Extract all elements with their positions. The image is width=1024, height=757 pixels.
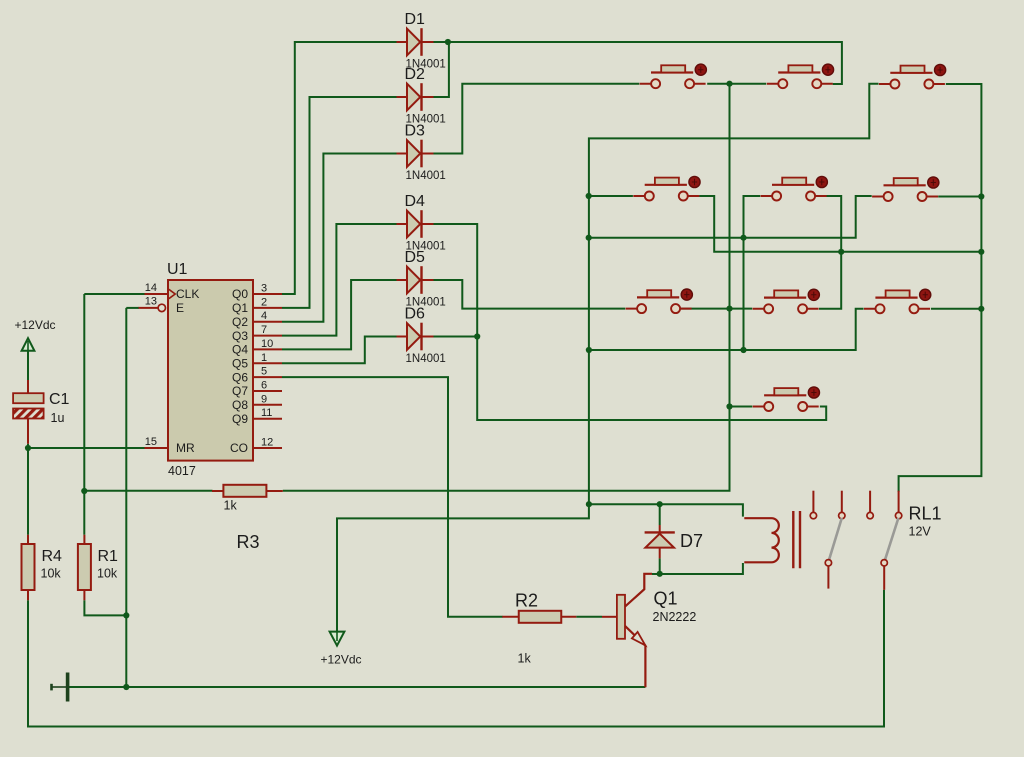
push button row3 col1: [626, 289, 693, 313]
svg-text:7: 7: [261, 324, 267, 336]
svg-text:CLK: CLK: [176, 287, 199, 301]
wire R1 bottom link: [84, 600, 126, 615]
svg-text:CO: CO: [230, 441, 248, 455]
resistor R4 leads: [27, 535, 29, 600]
relay bottom contact 2: [881, 560, 887, 590]
svg-text:12: 12: [261, 437, 273, 449]
wire row3 btn3 right to far-right column: [931, 308, 981, 310]
wire D2 cathode to D1 junction: [433, 42, 449, 97]
push button row2 col3: [872, 177, 939, 201]
wire D6 cathode to junction: [433, 336, 477, 338]
pin CO (pin 12) of U1: [230, 437, 282, 456]
diode D7 (flyback): [645, 525, 703, 558]
wire D1 cathode bus to button row1: [433, 42, 842, 84]
svg-text:1u: 1u: [51, 411, 65, 425]
wire +12V rail riser and top feed: [337, 84, 879, 644]
node y238 bus on +12V column: [586, 235, 592, 241]
svg-text:5: 5: [261, 366, 267, 378]
resistor R3 (1k): [223, 485, 266, 552]
diode D1 (1N4001): [397, 11, 446, 71]
svg-text:U1: U1: [167, 261, 188, 278]
transistor Q1 (2N2222): [602, 574, 696, 687]
svg-text:R2: R2: [515, 591, 538, 611]
wire ground row: [68, 686, 645, 688]
node R1 bottom on E column: [123, 612, 129, 618]
resistor R1 leads: [83, 535, 85, 600]
wire D7 bottom lead: [659, 558, 661, 573]
svg-text:Q1: Q1: [654, 589, 678, 609]
wire C1 to junction: [27, 444, 29, 448]
svg-text:MR: MR: [176, 441, 195, 455]
diode D4 (1N4001): [397, 193, 446, 253]
svg-text:Q7: Q7: [232, 384, 248, 398]
wire Q1 to D2 anode: [282, 97, 397, 308]
node row3 btn3 right on far-right column: [978, 306, 984, 312]
diode D6 (1N4001): [397, 306, 446, 366]
wire Q2 to D3 anode: [282, 154, 397, 322]
svg-text:2N2222: 2N2222: [653, 610, 697, 624]
diode D3 (1N4001): [397, 123, 446, 183]
svg-text:1k: 1k: [224, 499, 238, 513]
svg-text:Q2: Q2: [232, 315, 248, 329]
wire Q6 to R2: [282, 377, 503, 617]
svg-text:10k: 10k: [41, 567, 62, 581]
resistor R2 leads: [502, 616, 576, 618]
svg-text:1N4001: 1N4001: [406, 170, 446, 182]
resistor R2 (1k): [515, 591, 561, 666]
svg-text:Q4: Q4: [232, 343, 248, 357]
svg-text:6: 6: [261, 380, 267, 392]
power +12Vdc top-left arrow: [22, 338, 35, 351]
diode D5 (1N4001): [397, 249, 446, 309]
pin Q4 (pin 10) of U1: [232, 338, 282, 357]
node D7 anode branch: [657, 501, 663, 507]
node row2 btn1 left on +12V column: [586, 193, 592, 199]
resistor R1 (10k): [78, 544, 118, 590]
wire +12V top arrow stem: [27, 351, 29, 381]
svg-text:10k: 10k: [97, 567, 118, 581]
node row3 on R3 column: [726, 306, 732, 312]
wire E column: [125, 308, 127, 687]
push button row1 col3: [879, 64, 946, 88]
pin Q2 (pin 4) of U1: [232, 310, 282, 329]
svg-text:3: 3: [261, 283, 267, 295]
wire D7 +12V branch: [589, 504, 743, 516]
relay contact pin 3: [867, 491, 873, 519]
node E column on ground row: [123, 684, 129, 690]
capacitor C1 (1u): [13, 380, 69, 444]
wire row1 btn1-btn2 link: [707, 83, 766, 85]
pin Q6 (pin 5) of U1: [232, 366, 282, 385]
push button row2 col1: [633, 176, 700, 200]
resistor R3 leads: [212, 490, 283, 492]
node D7 branch on +12V column: [586, 501, 592, 507]
node y350 bus on +12V column: [586, 347, 592, 353]
pin E (pin 13) of U1: [139, 296, 185, 315]
wire row10 button left stub: [730, 406, 753, 408]
svg-text:R4: R4: [42, 548, 63, 565]
svg-text:1: 1: [261, 352, 267, 364]
svg-text:Q8: Q8: [232, 398, 248, 412]
relay bottom contact 1: [825, 560, 831, 589]
svg-text:9: 9: [261, 393, 267, 405]
wire CLK/R1 column: [83, 294, 85, 535]
pin Q9 (pin 11) of U1: [232, 407, 282, 426]
ground symbol: [52, 673, 68, 702]
wire Q3 to D4 anode: [282, 224, 397, 336]
diode D2 (1N4001): [397, 66, 446, 126]
node D7/Q1 collector/coil: [657, 571, 663, 577]
push button row3 col3: [864, 289, 931, 313]
relay switch arm 2: [885, 518, 899, 560]
svg-text:D4: D4: [405, 193, 426, 210]
node btn2 riser on y350 bus: [740, 347, 746, 353]
node C1/MR/R4: [25, 445, 31, 451]
wire Q0 to D1 anode: [282, 42, 397, 294]
wire row2 btn1 right to contact bus: [699, 196, 981, 252]
relay contact pin 4: [895, 491, 901, 519]
svg-text:Q1: Q1: [232, 301, 248, 315]
svg-text:12V: 12V: [909, 525, 932, 539]
pin Q5 (pin 1) of U1: [232, 352, 282, 371]
power +12Vdc down arrow (middle): [330, 632, 345, 646]
wire MR row: [28, 447, 145, 449]
svg-text:D7: D7: [680, 531, 703, 551]
node R3 left: [81, 488, 87, 494]
svg-text:D1: D1: [405, 11, 426, 28]
pin Q1 (pin 2) of U1: [232, 296, 282, 315]
svg-text:D5: D5: [405, 249, 426, 266]
pin CLK (pin 14) of U1: [145, 282, 200, 301]
svg-text:Q3: Q3: [232, 329, 248, 343]
resistor R4 (10k): [22, 544, 63, 590]
wire row2 btn2 left riser: [744, 196, 761, 350]
svg-text:R3: R3: [237, 532, 260, 552]
wire Q4 to D5 anode: [282, 280, 397, 349]
svg-text:1N4001: 1N4001: [406, 353, 446, 365]
node D1/D2 cathodes: [445, 39, 451, 45]
wire row2 btn1 left to +12V column: [589, 195, 633, 197]
node row1 on R3 column: [726, 81, 732, 87]
wire Q5 to D6 anode: [282, 337, 397, 364]
svg-text:14: 14: [145, 282, 157, 294]
wire R2 base link: [576, 616, 602, 618]
wire row1 btn3 right to far-right column: [899, 84, 982, 492]
pin Q8 (pin 9) of U1: [232, 393, 282, 412]
svg-text:15: 15: [145, 436, 157, 448]
svg-text:13: 13: [145, 296, 157, 308]
wire R3 left segment: [84, 490, 212, 492]
wire row3 btn1 right to column: [681, 308, 753, 310]
svg-text:2: 2: [261, 296, 267, 308]
wire row2-row3 btn2 right riser: [819, 196, 841, 309]
node row2 btn2 right on contact bus: [838, 249, 844, 255]
wire R3 output column: [283, 84, 730, 491]
wire D7 top lead: [659, 504, 661, 525]
push button row1 col2: [767, 64, 834, 88]
wire row2 left bus y238: [589, 196, 872, 238]
svg-text:+12Vdc: +12Vdc: [321, 653, 362, 667]
wire D4 cathode down: [433, 224, 826, 420]
wire row2 btn3 right to far-right column: [938, 196, 981, 198]
wire row3 left bus y350: [589, 309, 864, 350]
wire D3 cathode to row1 button1: [433, 84, 639, 154]
node D4/D6 cathodes: [474, 333, 480, 339]
pin Q7 (pin 6) of U1: [232, 380, 282, 399]
svg-text:Q6: Q6: [232, 370, 248, 384]
push button row2 col2: [761, 176, 828, 200]
relay contact pin 2: [839, 491, 845, 519]
svg-text:RL1: RL1: [909, 504, 942, 524]
svg-text:1k: 1k: [518, 652, 532, 666]
node contact bus on far-right column: [978, 249, 984, 255]
svg-text:4017: 4017: [168, 464, 196, 478]
svg-text:D6: D6: [405, 306, 426, 323]
wire D5 cathode to row3 button1: [433, 280, 625, 309]
relay contact pin 1: [810, 491, 816, 519]
svg-text:D3: D3: [405, 123, 426, 140]
push button row1 col1: [640, 64, 707, 88]
svg-text:10: 10: [261, 338, 273, 350]
pin Q0 (pin 3) of U1: [232, 283, 282, 302]
push button row4 single: [753, 387, 820, 411]
wire R4 top lead wire: [27, 448, 29, 535]
node row10 on R3 column: [726, 403, 732, 409]
push button row3 col2: [753, 289, 820, 313]
svg-text:Q5: Q5: [232, 357, 248, 371]
wire CLK row: [84, 293, 144, 295]
svg-text:E: E: [176, 301, 184, 315]
node y238 bus on btn2 riser: [740, 235, 746, 241]
svg-text:C1: C1: [49, 391, 70, 408]
wire E row: [126, 307, 139, 309]
svg-text:Q9: Q9: [232, 412, 248, 426]
pin Q3 (pin 7) of U1: [232, 324, 282, 343]
IC U1 4017 body: [158, 280, 253, 461]
pin MR (pin 15) of U1: [145, 436, 195, 455]
svg-text:4: 4: [261, 310, 267, 322]
relay switch arm 1: [829, 518, 842, 560]
relay RL1 coil: [744, 511, 800, 568]
wire R4 bottom / bottom rail / relay riser: [28, 590, 884, 727]
svg-text:D2: D2: [405, 66, 426, 83]
svg-text:Q0: Q0: [232, 287, 248, 301]
svg-text:R1: R1: [98, 548, 119, 565]
svg-text:+12Vdc: +12Vdc: [15, 318, 56, 332]
svg-text:11: 11: [261, 407, 272, 419]
node row2 btn3 right on far-right column: [978, 193, 984, 199]
wire coil bottom to collector junction: [652, 563, 743, 574]
